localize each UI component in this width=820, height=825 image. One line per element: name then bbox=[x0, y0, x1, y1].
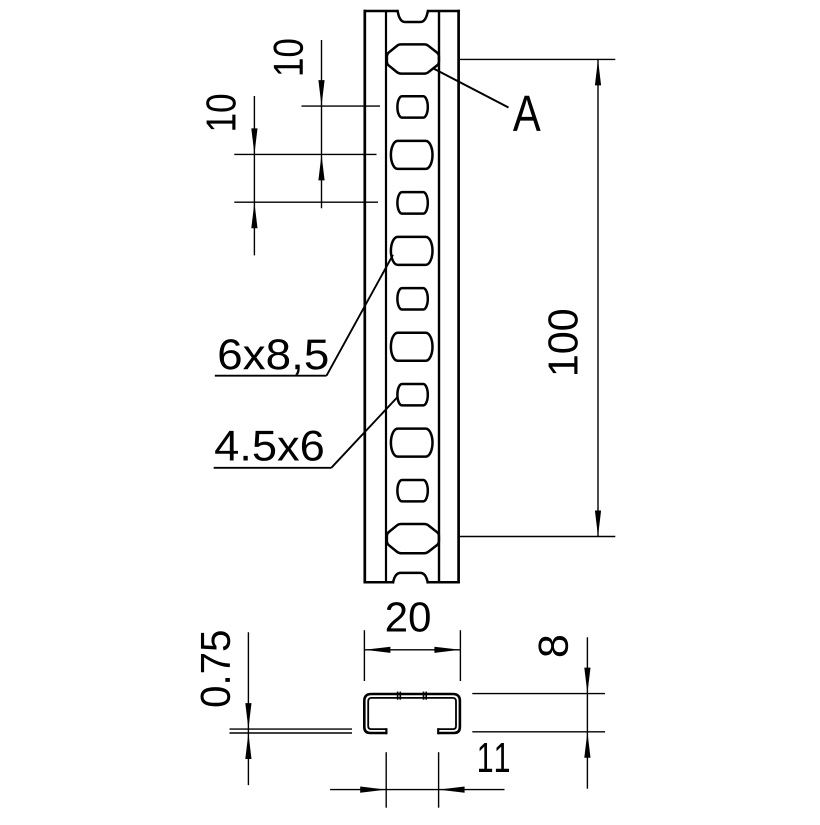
arrow down to lip top bbox=[245, 703, 251, 729]
leader underline 4.5x6 bbox=[214, 467, 332, 469]
large slot 6x8.5 #3 bbox=[391, 333, 433, 361]
arrow right to x=460 bbox=[434, 647, 460, 653]
rail bottom edge (left of notch) bbox=[364, 581, 394, 584]
label 8 bbox=[538, 636, 568, 656]
label 4.5x6 bbox=[215, 430, 323, 460]
arrow up to y=202 bbox=[251, 202, 257, 228]
extension line slot center y=202 bbox=[234, 201, 378, 203]
dimension line 10 (right chain) bbox=[321, 40, 323, 208]
rail inner left fold line bbox=[385, 11, 387, 582]
profile inner contour (section view) bbox=[368, 698, 456, 729]
arrow up to lip bottom bbox=[245, 733, 251, 759]
extension double line (lip surfaces) bbox=[230, 728, 353, 730]
label 11 bbox=[479, 743, 509, 772]
arrow left to x=364 bbox=[364, 647, 390, 653]
rail top edge (left of notch) bbox=[364, 10, 398, 13]
profile left lip end cap bbox=[385, 728, 387, 734]
arrow up to y=59 bbox=[595, 59, 601, 85]
dimension line 100 bbox=[597, 59, 599, 536]
profile outer contour (section view) bbox=[364, 694, 460, 733]
extension line profile top level bbox=[472, 693, 605, 695]
extension line left lip end bbox=[385, 752, 387, 808]
label 20 bbox=[387, 602, 430, 632]
rail outer left edge bbox=[363, 10, 366, 584]
large slot 6x8.5 #4 bbox=[391, 429, 433, 457]
bottom edge half-slot notch bbox=[393, 573, 428, 584]
arrow up to y=154 (right chain) bbox=[318, 154, 324, 180]
large slot 6x8.5 #2 bbox=[391, 237, 433, 265]
arrow down to y=154 (left chain) bbox=[251, 128, 257, 154]
extension line from slot A center bbox=[460, 58, 616, 60]
dimension line 10 (left chain) bbox=[253, 96, 255, 255]
arrow down to y=536 bbox=[595, 511, 601, 537]
top edge half-slot notch bbox=[397, 10, 428, 22]
arrow down to y=694 bbox=[584, 668, 590, 694]
rail inner right fold line bbox=[438, 11, 440, 582]
dimension line 20 bbox=[364, 649, 460, 651]
dimension line 8 bbox=[586, 637, 588, 789]
rail outer right edge bbox=[457, 10, 460, 584]
small slot 4.5x6 #3 bbox=[397, 288, 427, 309]
leader line to small slot bbox=[331, 397, 398, 468]
profile right lip end cap bbox=[437, 728, 439, 734]
label 10 (left chain) bbox=[206, 95, 236, 130]
label A bbox=[513, 96, 541, 131]
label 6x8,5 bbox=[219, 339, 327, 375]
extension line slot center y=106 bbox=[302, 105, 381, 107]
label 0.75 bbox=[201, 631, 231, 706]
arrow left to x=438 bbox=[439, 787, 465, 793]
arrow up to y=732 bbox=[584, 732, 590, 758]
leader line to large slot bbox=[327, 255, 394, 376]
extension line profile bottom level bbox=[472, 731, 605, 733]
small slot 4.5x6 #1 bbox=[397, 96, 427, 117]
hexagonal slot A (bottom) bbox=[387, 524, 439, 553]
small slot 4.5x6 #5 bbox=[397, 480, 427, 501]
large slot 6x8.5 #1 bbox=[391, 141, 433, 169]
arrow down to y=106 bbox=[318, 80, 324, 106]
label 10 (right chain) bbox=[273, 39, 303, 74]
leader line to slot A bbox=[434, 69, 509, 108]
slot edge tick marks on top face (right) bbox=[423, 692, 425, 700]
hexagonal slot A (top) bbox=[387, 44, 439, 73]
extension line profile left bbox=[363, 630, 365, 681]
extension line profile right bbox=[459, 630, 461, 681]
rail top edge (right of notch) bbox=[428, 10, 460, 13]
arrow right to x=386 bbox=[360, 787, 386, 793]
small slot 4.5x6 #2 bbox=[397, 192, 427, 213]
slot edge tick marks on top face (left) bbox=[397, 692, 399, 700]
leader underline 6x8,5 bbox=[215, 375, 327, 377]
dimension line 0.75 bbox=[247, 632, 249, 785]
extension line slot center y=154 bbox=[234, 153, 376, 155]
dimension line 11 bbox=[330, 789, 504, 791]
rail bottom edge (right of notch) bbox=[428, 581, 460, 584]
extension line from bottom slot A center bbox=[460, 536, 616, 538]
small slot 4.5x6 #4 bbox=[397, 384, 427, 405]
label 100 bbox=[548, 310, 578, 374]
extension line right lip end bbox=[438, 752, 440, 808]
